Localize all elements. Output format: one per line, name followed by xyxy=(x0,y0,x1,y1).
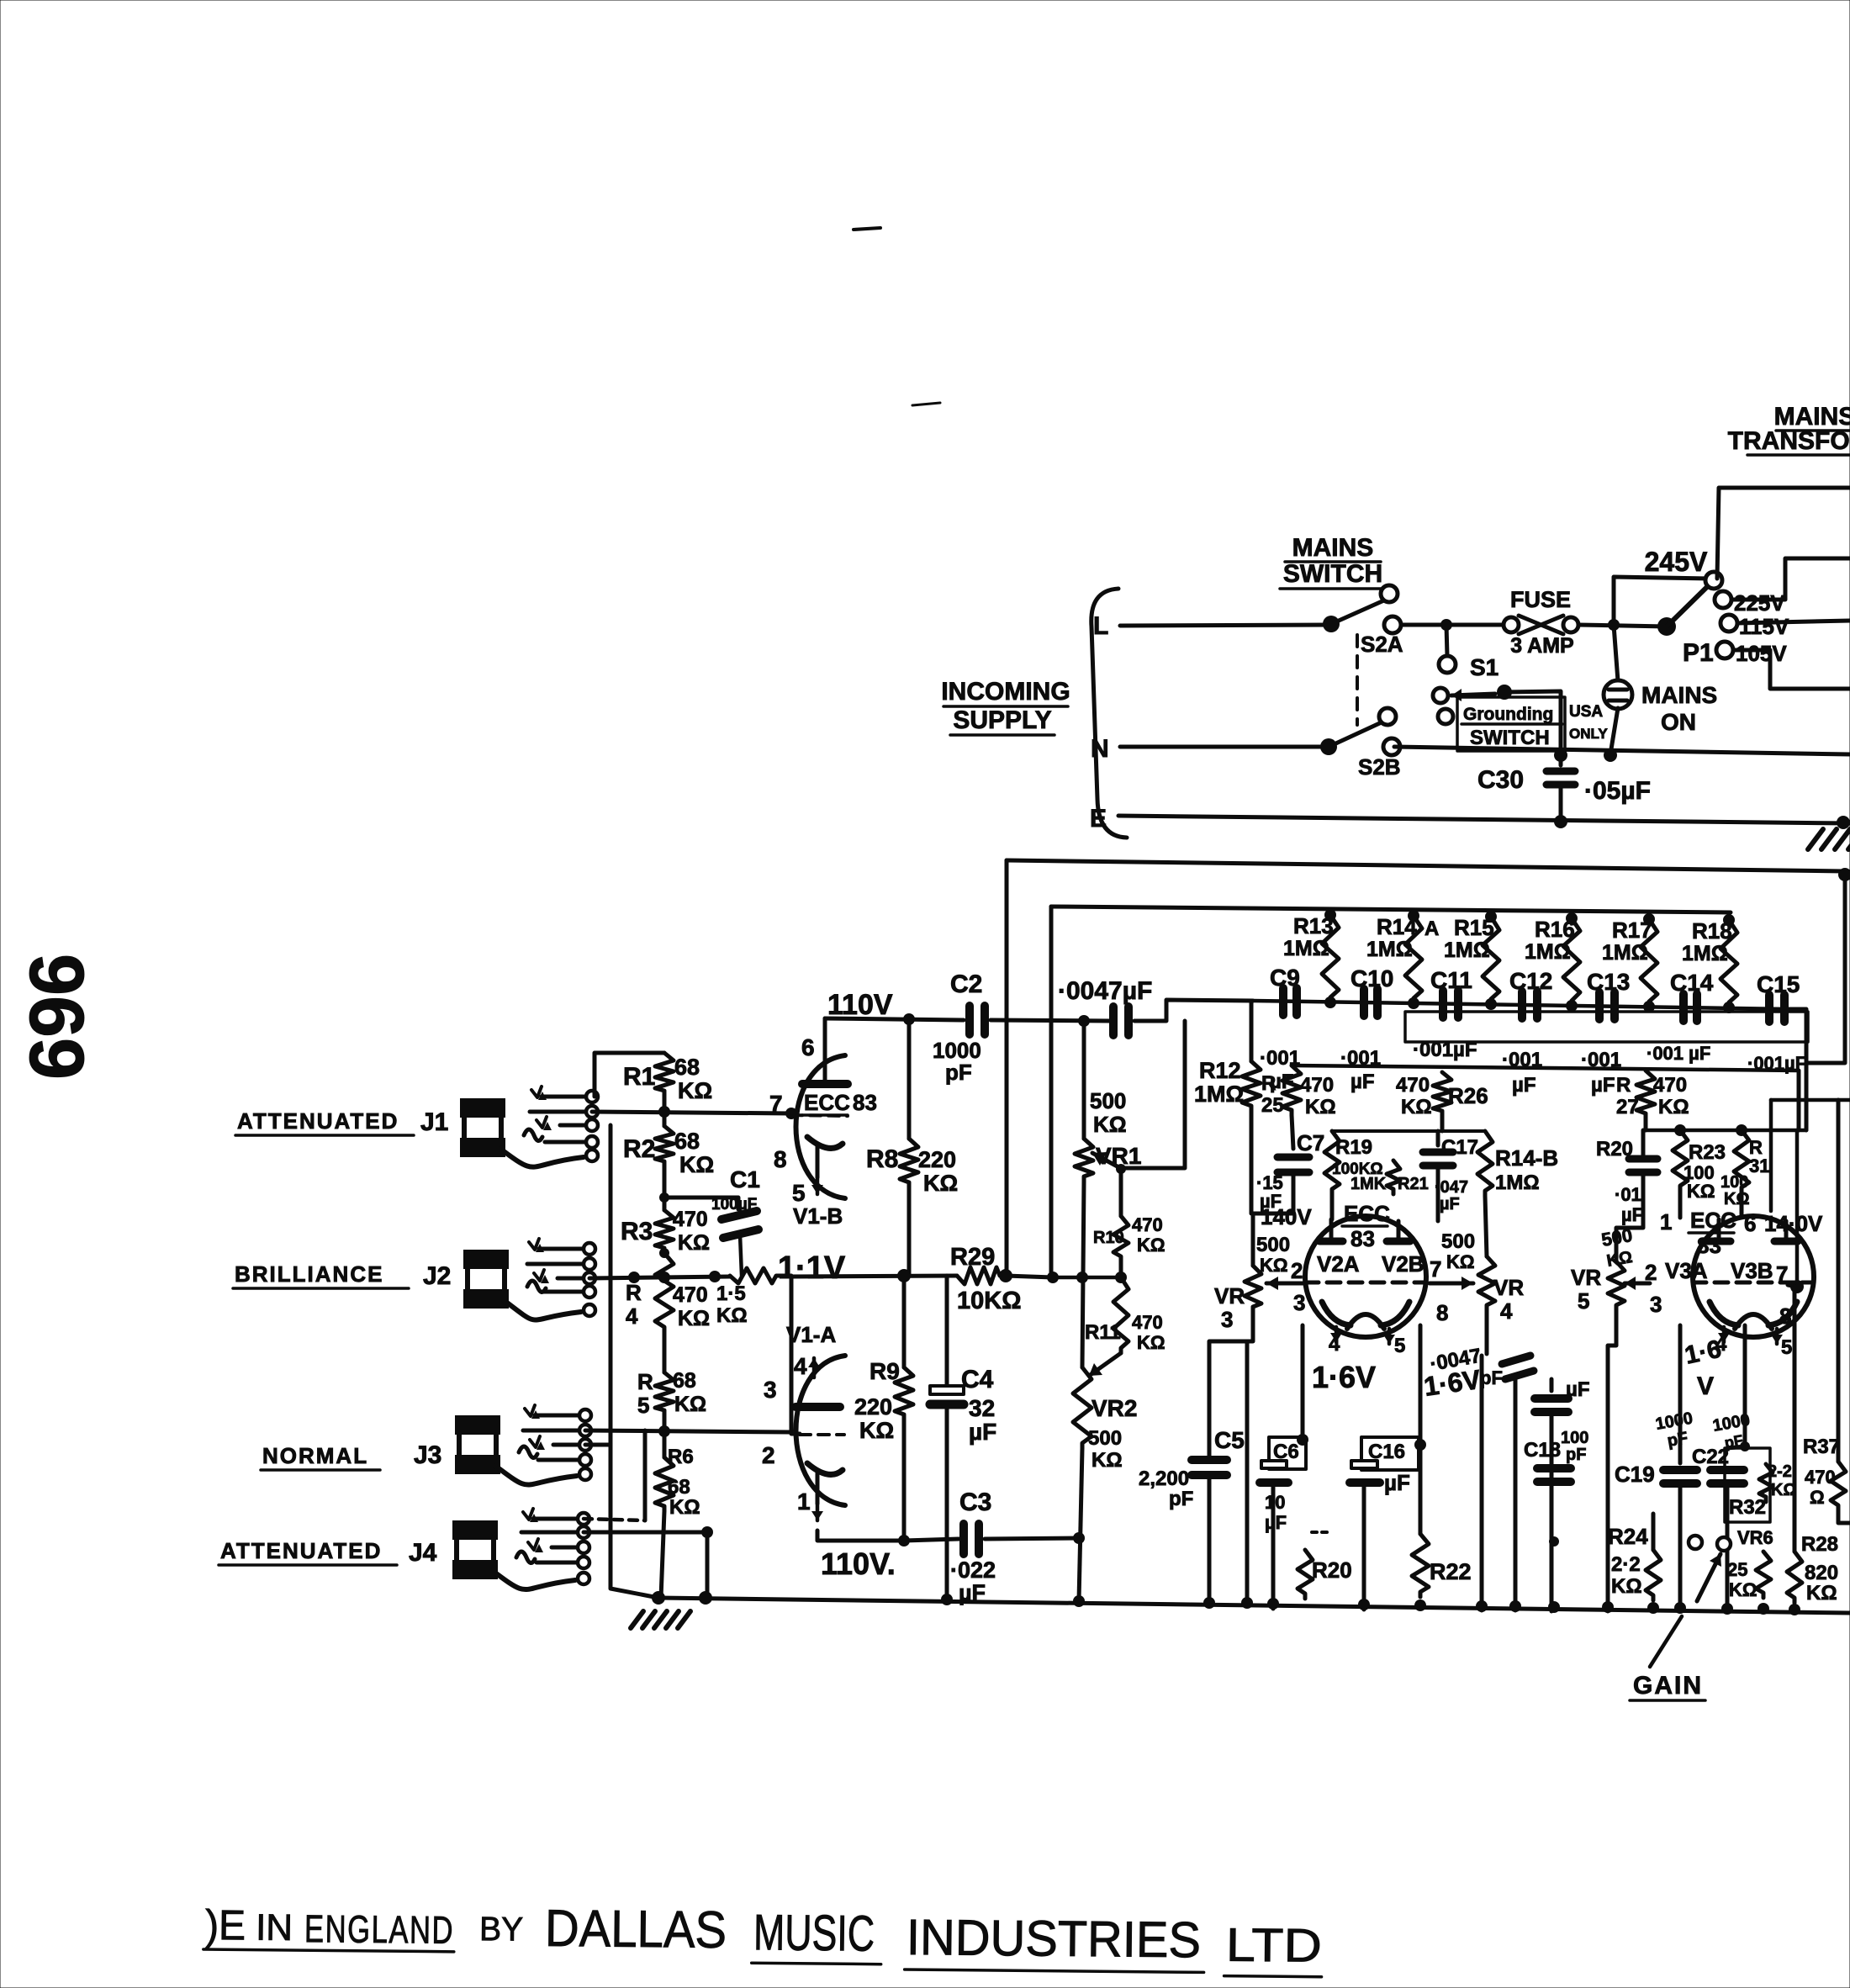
svg-text:R32: R32 xyxy=(1729,1496,1766,1519)
svg-text:KΩ: KΩ xyxy=(1401,1096,1432,1118)
svg-text:27: 27 xyxy=(1616,1096,1639,1118)
svg-text:VR: VR xyxy=(1493,1275,1524,1300)
wire R8 to cathode rail xyxy=(907,1187,912,1276)
svg-text:5: 5 xyxy=(1781,1336,1792,1359)
resistor R27 470K xyxy=(1636,1071,1655,1118)
svg-text:C18: C18 xyxy=(1524,1439,1561,1462)
svg-text:2,200: 2,200 xyxy=(1139,1467,1189,1490)
svg-text:KΩ: KΩ xyxy=(859,1418,894,1443)
svg-text:83: 83 xyxy=(1350,1226,1375,1251)
svg-text:ATTENUATED: ATTENUATED xyxy=(220,1538,382,1563)
svg-text:500: 500 xyxy=(1090,1088,1126,1113)
stray mark xyxy=(854,228,880,230)
svg-text:C9: C9 xyxy=(1270,965,1300,991)
capacitor C9 .001uF xyxy=(1279,988,1287,1015)
svg-text:pF: pF xyxy=(945,1060,972,1085)
ground bus dots xyxy=(941,1594,953,1605)
resistor R14 1M xyxy=(1405,916,1422,1003)
wire top rail outer xyxy=(1007,860,1845,871)
svg-text:225V: 225V xyxy=(1734,590,1785,616)
svg-text:25: 25 xyxy=(1261,1094,1284,1117)
svg-text:µF: µF xyxy=(1591,1074,1615,1097)
svg-text:1MK: 1MK xyxy=(1350,1175,1387,1193)
svg-text:KΩ: KΩ xyxy=(1093,1112,1127,1137)
svg-text:5: 5 xyxy=(637,1393,649,1418)
wire R6 to ground bus xyxy=(661,1511,664,1598)
switch S2A xyxy=(1323,616,1340,632)
svg-text:2-2: 2-2 xyxy=(1768,1462,1792,1481)
wire R4 to R5 xyxy=(663,1332,667,1372)
svg-text:·01: ·01 xyxy=(1615,1184,1641,1205)
svg-text:V1-A: V1-A xyxy=(786,1322,836,1347)
tap 225V xyxy=(1715,591,1731,608)
svg-text:KΩ: KΩ xyxy=(1611,1575,1642,1598)
svg-text:ONLY: ONLY xyxy=(1569,726,1608,742)
svg-text:68: 68 xyxy=(674,1129,700,1154)
svg-text:C5: C5 xyxy=(1214,1427,1245,1453)
svg-text:SWITCH: SWITCH xyxy=(1470,727,1550,749)
svg-text:3: 3 xyxy=(1293,1290,1305,1315)
fuse F1 xyxy=(1504,617,1519,632)
svg-text:R14-B: R14-B xyxy=(1495,1145,1558,1171)
wire R29 to drops xyxy=(1006,1276,1053,1277)
svg-text:SWITCH: SWITCH xyxy=(1283,560,1382,588)
svg-text:KΩ: KΩ xyxy=(1724,1190,1749,1208)
svg-text:100: 100 xyxy=(1720,1173,1748,1192)
svg-text:4: 4 xyxy=(794,1353,807,1379)
svg-text:110V.: 110V. xyxy=(821,1547,896,1581)
resistor R11 470K xyxy=(1113,1277,1128,1353)
wire VR1 to VR2 xyxy=(1082,1182,1084,1367)
potentiometer VR6 25K xyxy=(1689,1536,1702,1549)
svg-text:USA: USA xyxy=(1569,703,1603,721)
svg-text:C12: C12 xyxy=(1509,968,1552,994)
capacitor C10 .001uF xyxy=(1360,989,1368,1016)
resistor R2 68K xyxy=(663,1096,667,1126)
svg-text:820: 820 xyxy=(1805,1562,1838,1584)
svg-text:ECC: ECC xyxy=(804,1090,850,1115)
svg-text:S2A: S2A xyxy=(1361,632,1403,657)
svg-text:68: 68 xyxy=(674,1055,700,1080)
resistor R3 470K xyxy=(655,1210,674,1253)
svg-text:R6: R6 xyxy=(668,1446,694,1468)
svg-text:E: E xyxy=(1090,805,1107,833)
svg-text:1MΩ: 1MΩ xyxy=(1283,937,1329,960)
svg-text:R10: R10 xyxy=(1093,1229,1124,1247)
wire sleeve bus vertical xyxy=(610,1125,658,1598)
jack J2 xyxy=(463,1250,509,1269)
resistor 1.5K grid stopper xyxy=(730,1268,780,1283)
svg-text:KΩ: KΩ xyxy=(1658,1096,1689,1118)
svg-text:V2A: V2A xyxy=(1317,1251,1360,1277)
resistor R5 68K xyxy=(655,1372,674,1415)
svg-text:KΩ: KΩ xyxy=(1446,1251,1475,1272)
resistor R13 1M xyxy=(1322,915,1339,1002)
svg-text:1MΩ: 1MΩ xyxy=(1194,1081,1244,1107)
svg-text:KΩ: KΩ xyxy=(1729,1579,1757,1600)
wire J2 tip rail xyxy=(589,1277,730,1278)
svg-text:3: 3 xyxy=(764,1377,777,1403)
wire fuse to P1 xyxy=(1578,625,1667,627)
svg-text:4: 4 xyxy=(626,1303,638,1329)
svg-text:VR2: VR2 xyxy=(1091,1395,1137,1421)
wire to tone caps rail xyxy=(1134,1000,1253,1021)
svg-text:LTD: LTD xyxy=(1226,1918,1323,1972)
capacitor C3 .022uF xyxy=(904,1539,959,1541)
wire V2B cathode xyxy=(1419,1325,1423,1534)
resistor R23 100K xyxy=(1673,1130,1688,1191)
wire to V1-A grid xyxy=(780,1276,800,1434)
wire left drop inner xyxy=(1049,907,1054,1277)
svg-text:IN: IN xyxy=(256,1907,293,1948)
svg-text:1MΩ: 1MΩ xyxy=(1525,940,1571,964)
wire top rail inner xyxy=(1051,907,1731,912)
wire V3A cathode C19 xyxy=(1678,1325,1683,1463)
wire J1 tip to grid pin7 xyxy=(592,1112,791,1113)
svg-text:8: 8 xyxy=(1779,1303,1791,1329)
svg-text:470: 470 xyxy=(1396,1074,1430,1097)
wire cathode rail R29 xyxy=(897,1269,911,1282)
capacitor C5 2200pF xyxy=(1192,1456,1227,1464)
wire R12 down xyxy=(1250,1111,1254,1213)
svg-text:KΩ: KΩ xyxy=(923,1171,958,1196)
svg-text:8: 8 xyxy=(1436,1300,1448,1325)
capacitor .0047uF xyxy=(1109,1007,1118,1035)
svg-text:V3A: V3A xyxy=(1665,1258,1708,1283)
svg-text:500: 500 xyxy=(1088,1427,1122,1450)
wire L to fuse xyxy=(1401,623,1504,627)
svg-text:SUPPLY: SUPPLY xyxy=(953,706,1051,734)
svg-text:2: 2 xyxy=(762,1442,775,1468)
potentiometer VR2 500K xyxy=(1089,1353,1121,1376)
svg-text:ATTENUATED: ATTENUATED xyxy=(237,1108,399,1134)
svg-text:470: 470 xyxy=(1132,1214,1163,1235)
label GAIN xyxy=(1650,1616,1682,1667)
wire N to right xyxy=(1394,747,1850,754)
svg-text:·001 µF: ·001 µF xyxy=(1646,1043,1710,1064)
svg-text:1MΩ: 1MΩ xyxy=(1366,938,1413,961)
svg-text:·022: ·022 xyxy=(950,1557,996,1583)
svg-text:R26: R26 xyxy=(1448,1083,1488,1108)
resistor R22 xyxy=(1412,1534,1429,1597)
wire L xyxy=(1120,625,1331,626)
svg-text:C11: C11 xyxy=(1430,967,1472,993)
svg-text:INCOMING: INCOMING xyxy=(941,678,1070,706)
svg-text:VR6: VR6 xyxy=(1737,1527,1773,1548)
svg-text:µF: µF xyxy=(1621,1204,1643,1225)
wire J3/J4 links xyxy=(585,1443,610,1447)
resistor R37 470 xyxy=(1837,1100,1841,1462)
svg-text:J4: J4 xyxy=(409,1539,437,1567)
svg-text:470: 470 xyxy=(1805,1467,1836,1488)
svg-text:J3: J3 xyxy=(414,1441,441,1469)
svg-text:TRANSFOR: TRANSFOR xyxy=(1728,427,1850,455)
svg-text:µF: µF xyxy=(969,1419,996,1445)
svg-text:470: 470 xyxy=(673,1283,708,1307)
svg-text:220: 220 xyxy=(854,1394,892,1420)
wire E xyxy=(1118,816,1850,823)
svg-text:C17: C17 xyxy=(1441,1136,1478,1159)
wire VR4 bottom xyxy=(1485,1310,1489,1354)
svg-text:MAINS: MAINS xyxy=(1641,682,1717,708)
resistor R26 470K xyxy=(1433,1072,1451,1116)
svg-text:R37: R37 xyxy=(1803,1435,1840,1458)
svg-text:ECC: ECC xyxy=(1690,1208,1736,1233)
capacitor C16 1uF xyxy=(1361,1437,1419,1470)
tube V2 ECC83 xyxy=(1305,1216,1426,1337)
svg-text:500: 500 xyxy=(1256,1234,1290,1256)
box R32 xyxy=(1725,1448,1770,1522)
rail to R10 R11 xyxy=(1053,1276,1121,1280)
wire VR5 bottom xyxy=(1608,1310,1616,1611)
svg-text:KΩ: KΩ xyxy=(716,1304,748,1327)
svg-text:VR: VR xyxy=(1214,1283,1245,1309)
resistor R12 1M xyxy=(1250,1001,1254,1061)
svg-text:7: 7 xyxy=(1776,1261,1788,1287)
svg-text:C14: C14 xyxy=(1670,970,1714,996)
resistor R24 2.2K xyxy=(1646,1550,1661,1600)
svg-text:1·5: 1·5 xyxy=(716,1282,746,1305)
svg-text:R1: R1 xyxy=(623,1063,655,1091)
wire R14B to VR4 xyxy=(1485,1196,1487,1256)
svg-text:KΩ: KΩ xyxy=(1806,1582,1837,1605)
capacitor C15 .001uF xyxy=(1765,995,1773,1022)
svg-text:10: 10 xyxy=(1265,1492,1285,1513)
svg-text:470: 470 xyxy=(1132,1312,1163,1333)
svg-text:V2B: V2B xyxy=(1382,1251,1424,1277)
svg-text:4: 4 xyxy=(1500,1298,1513,1324)
ground bus xyxy=(658,1598,1850,1613)
svg-text:8: 8 xyxy=(774,1146,787,1172)
resistor R8 220K xyxy=(907,1019,912,1139)
wire value box xyxy=(1405,1012,1808,1042)
svg-text:R: R xyxy=(637,1369,653,1394)
svg-text:C1: C1 xyxy=(730,1166,760,1192)
wire C20 to VR5 xyxy=(1616,1172,1643,1261)
svg-text:115V: 115V xyxy=(1739,614,1789,639)
svg-text:2·2: 2·2 xyxy=(1611,1553,1641,1576)
svg-text:ECC: ECC xyxy=(1344,1201,1390,1226)
resistor R14-B 1M xyxy=(1477,1131,1493,1196)
wire transformer primary top xyxy=(1717,488,1850,579)
resistor 2.2K upper xyxy=(1759,1464,1773,1502)
wire grounding to C30 node xyxy=(1504,691,1561,753)
svg-text:R9: R9 xyxy=(869,1358,900,1384)
resistor R10 470K xyxy=(1119,1169,1123,1216)
svg-text:1: 1 xyxy=(797,1488,811,1515)
svg-text:R28: R28 xyxy=(1801,1533,1838,1556)
wire left drop outer xyxy=(1005,860,1009,1276)
wire 245V riser xyxy=(1614,577,1710,625)
svg-text:1·1V: 1·1V xyxy=(778,1250,846,1286)
svg-text:110V: 110V xyxy=(827,989,893,1021)
svg-text:·0047µF: ·0047µF xyxy=(1058,977,1152,1005)
svg-text:KΩ: KΩ xyxy=(1305,1096,1336,1118)
svg-text:L: L xyxy=(1093,612,1108,640)
svg-text:4: 4 xyxy=(1329,1333,1340,1356)
capacitor C7 .15uF xyxy=(1292,1115,1293,1149)
wire J3 tip to grid xyxy=(585,1430,791,1432)
wire V2 plate leads xyxy=(1329,1219,1334,1241)
svg-text:VR: VR xyxy=(1571,1265,1601,1290)
svg-text:68: 68 xyxy=(668,1476,690,1499)
svg-text:KΩ: KΩ xyxy=(669,1496,700,1519)
svg-text:C2: C2 xyxy=(950,970,982,998)
capacitor C12 .001uF xyxy=(1518,991,1526,1018)
resistor R28 820K xyxy=(1793,1287,1797,1552)
incoming supply bracket xyxy=(1091,589,1127,838)
wire dashed switch gang xyxy=(1356,635,1359,725)
svg-text:R18: R18 xyxy=(1692,918,1732,944)
svg-text:ENGLAND: ENGLAND xyxy=(304,1906,454,1952)
svg-text:pF: pF xyxy=(1169,1488,1193,1510)
wire out mid right xyxy=(1771,1098,1850,1102)
capacitor C6 10uF xyxy=(1269,1437,1306,1469)
tap 105V xyxy=(1716,642,1733,658)
resistor R21 1M xyxy=(1387,1161,1400,1194)
capacitor C13 .001uF xyxy=(1595,992,1604,1019)
svg-text:µF: µF xyxy=(1350,1071,1375,1093)
svg-text:1MΩ: 1MΩ xyxy=(1444,938,1490,962)
svg-text:KΩ: KΩ xyxy=(1260,1255,1288,1276)
svg-text:C4: C4 xyxy=(961,1366,994,1393)
svg-text:R16: R16 xyxy=(1535,917,1575,942)
svg-text:pF: pF xyxy=(1666,1429,1689,1451)
svg-text:C19: C19 xyxy=(1615,1462,1655,1487)
svg-text:R23: R23 xyxy=(1689,1141,1726,1164)
wire R5 to J3 tip xyxy=(663,1415,667,1431)
svg-text:R21: R21 xyxy=(1398,1175,1429,1193)
wire 115V xyxy=(1737,621,1850,623)
jack J4 xyxy=(452,1520,498,1540)
svg-text:7: 7 xyxy=(1430,1256,1441,1282)
jack J1 xyxy=(460,1098,505,1118)
svg-text:V1-B: V1-B xyxy=(793,1203,843,1229)
svg-text:140V: 140V xyxy=(1261,1204,1312,1229)
svg-text:R: R xyxy=(626,1280,642,1305)
wire drop to rail3 xyxy=(1797,1071,1801,1130)
svg-text:1: 1 xyxy=(1660,1209,1672,1235)
svg-text:14·0V: 14·0V xyxy=(1764,1211,1823,1236)
wire 110V anode rail xyxy=(825,1018,964,1020)
svg-text:R24: R24 xyxy=(1608,1524,1648,1549)
mains lamp MAINS ON xyxy=(1614,625,1618,681)
capacitor C18 upper xyxy=(1550,1379,1554,1391)
svg-text:R3: R3 xyxy=(621,1218,653,1245)
wire R26 to R19 rail xyxy=(1440,1116,1445,1131)
svg-text:R29: R29 xyxy=(950,1244,995,1271)
svg-text:1MΩ: 1MΩ xyxy=(1682,942,1728,965)
wire 105V xyxy=(1733,650,1850,689)
svg-text:3 AMP: 3 AMP xyxy=(1510,634,1573,658)
svg-text:470: 470 xyxy=(1300,1074,1334,1097)
svg-text:5: 5 xyxy=(792,1180,806,1206)
svg-text:ON: ON xyxy=(1661,709,1696,735)
svg-text:C3: C3 xyxy=(959,1488,991,1516)
svg-text:KΩ: KΩ xyxy=(674,1393,706,1416)
svg-text:R: R xyxy=(1261,1072,1276,1095)
svg-text:25: 25 xyxy=(1727,1559,1747,1580)
resistor R20 100K xyxy=(1312,1531,1330,1534)
svg-text:1MΩ: 1MΩ xyxy=(1495,1171,1540,1194)
svg-text:1MΩ: 1MΩ xyxy=(1602,941,1648,965)
tube V1 half V1-A xyxy=(812,1358,817,1377)
svg-text:C13: C13 xyxy=(1587,969,1630,995)
svg-text:MAINS: MAINS xyxy=(1292,534,1374,562)
svg-text:NORMAL: NORMAL xyxy=(262,1443,368,1468)
capacitor C30 xyxy=(1554,748,1567,762)
capacitor C4 32uF xyxy=(945,1276,949,1387)
resistor R9 220K xyxy=(902,1276,906,1367)
svg-text:µF: µF xyxy=(1512,1074,1536,1097)
svg-text:500: 500 xyxy=(1441,1230,1475,1253)
svg-text:A: A xyxy=(1424,917,1439,940)
svg-text:pF: pF xyxy=(1566,1446,1586,1464)
wire V2A cathode xyxy=(1301,1325,1305,1440)
jack J3 xyxy=(455,1415,500,1435)
svg-text:Ω: Ω xyxy=(1810,1487,1825,1508)
wire V3B cathode C22 xyxy=(1743,1325,1747,1446)
svg-text:KΩ: KΩ xyxy=(678,1307,710,1330)
svg-text:J2: J2 xyxy=(423,1262,451,1290)
resistor R4 470K xyxy=(655,1253,674,1332)
svg-text:2: 2 xyxy=(1291,1258,1303,1283)
svg-text:105V: 105V xyxy=(1736,641,1787,666)
wire tone caps rail xyxy=(1253,1001,1789,1009)
capacitor C2 1000pF xyxy=(965,1006,974,1034)
svg-text:R2: R2 xyxy=(623,1135,655,1163)
svg-text:R12: R12 xyxy=(1199,1058,1241,1083)
resistor R6 68K xyxy=(655,1457,674,1511)
svg-text:6: 6 xyxy=(1744,1211,1756,1236)
wire N xyxy=(1120,745,1329,749)
selector P1 xyxy=(1657,617,1676,636)
svg-text:C15: C15 xyxy=(1757,971,1800,997)
ground mains xyxy=(1808,829,1823,849)
svg-text:P1: P1 xyxy=(1683,639,1714,667)
svg-text:2: 2 xyxy=(1645,1260,1657,1285)
wire loop to VR1 wiper xyxy=(1123,1021,1185,1168)
svg-text:31: 31 xyxy=(1749,1155,1769,1176)
svg-text:J1: J1 xyxy=(420,1108,448,1136)
capacitor C1 100uF xyxy=(664,1198,738,1209)
wire V3 plate leads xyxy=(1717,1219,1721,1241)
wire VR3 ground drop xyxy=(1245,1341,1250,1599)
svg-text:220: 220 xyxy=(918,1147,956,1172)
svg-text:Grounding: Grounding xyxy=(1463,705,1553,724)
wire VR2 to ground bus xyxy=(1079,1448,1082,1601)
svg-text:83: 83 xyxy=(853,1090,877,1115)
wire R27 to rail3 xyxy=(1644,1118,1648,1130)
tube V3 ECC83 xyxy=(1693,1216,1814,1337)
svg-text:KΩ: KΩ xyxy=(678,1078,712,1103)
svg-text:C10: C10 xyxy=(1350,965,1393,991)
svg-text:BRILLIANCE: BRILLIANCE xyxy=(235,1261,383,1287)
svg-text:·05µF: ·05µF xyxy=(1584,777,1651,805)
switch S1 grounding xyxy=(1446,625,1447,656)
svg-text:R: R xyxy=(1616,1074,1631,1097)
resistor R19 100K xyxy=(1324,1131,1340,1194)
svg-text:KΩ: KΩ xyxy=(1091,1449,1123,1472)
svg-text:S2B: S2B xyxy=(1358,754,1401,780)
wire R2-R3 link xyxy=(663,1166,667,1210)
svg-text:R22: R22 xyxy=(1430,1559,1472,1584)
svg-text:10KΩ: 10KΩ xyxy=(957,1287,1021,1314)
svg-text:KΩ: KΩ xyxy=(1687,1181,1715,1202)
svg-text:C7: C7 xyxy=(1297,1130,1324,1155)
wire VR3 bottom to C5 xyxy=(1209,1312,1253,1457)
svg-text:µF: µF xyxy=(1440,1195,1460,1213)
